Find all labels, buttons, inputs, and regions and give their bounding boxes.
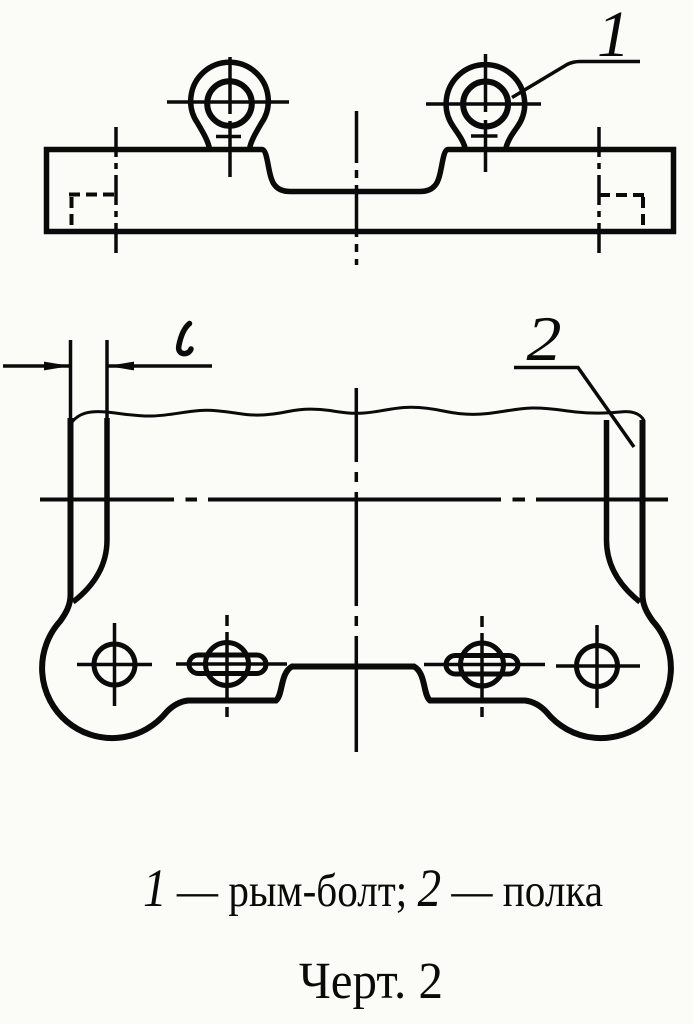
dimension line l xyxy=(3,364,212,368)
eye bolt right horizontal centerline xyxy=(426,102,541,106)
hole left horizontal centerline xyxy=(77,663,152,667)
eye bolt left vertical centerline xyxy=(228,57,232,177)
hole left plain xyxy=(94,644,135,685)
bottom view vertical centerline xyxy=(355,388,359,752)
hole right horizontal centerline xyxy=(556,664,640,668)
svg-text:1: 1 xyxy=(597,0,630,71)
slot right circle xyxy=(461,643,504,686)
slot right vertical centerline xyxy=(480,616,484,717)
eye bolt left neck tick xyxy=(216,135,241,139)
slot right horizontal centerline xyxy=(424,663,545,667)
slot left horizontal centerline xyxy=(176,662,287,666)
eye bolt 1 right inner hole xyxy=(463,82,508,127)
left plate outer line and left lobe xyxy=(42,418,671,738)
slot left stadium xyxy=(189,655,266,674)
left corner dash-dot centerline xyxy=(114,127,118,253)
hidden dashed corner right xyxy=(599,193,645,197)
bar outline with middle recess xyxy=(47,150,674,232)
svg-text:Черт. 2: Черт. 2 xyxy=(299,953,443,1010)
leader line to label 1 xyxy=(512,62,640,98)
slot left circle xyxy=(206,643,249,686)
hole right vertical centerline xyxy=(595,625,599,708)
hidden dashed corner left xyxy=(69,193,116,197)
dimension arrow left xyxy=(44,362,71,371)
eye bolt 1 left outer ring and neck xyxy=(191,62,269,149)
script letter l xyxy=(179,324,191,354)
hole left vertical centerline xyxy=(113,623,117,706)
extension lines for dimension l xyxy=(71,340,108,421)
slot right stadium xyxy=(446,656,518,675)
svg-text:1 — рым-болт; 2 — полка: 1 — рым-болт; 2 — полка xyxy=(143,858,603,918)
slot left vertical centerline xyxy=(225,615,229,717)
eye bolt 1 left inner hole xyxy=(207,81,252,126)
left plate inner line xyxy=(73,418,107,602)
leader line to label 2 xyxy=(514,368,634,448)
bottom view horizontal dash-dot centerline xyxy=(40,498,668,502)
right corner dash-dot centerline xyxy=(597,127,601,253)
dimension arrow right xyxy=(108,362,135,371)
svg-text:2: 2 xyxy=(527,303,562,374)
top view middle vertical centerline xyxy=(355,111,359,265)
wavy break line xyxy=(72,407,644,422)
right plate inner line xyxy=(607,420,641,602)
eye bolt left horizontal centerline xyxy=(167,100,289,104)
eye bolt 1 right outer ring and neck xyxy=(446,65,525,150)
hole right plain xyxy=(577,646,618,687)
eye bolt right vertical centerline xyxy=(484,54,488,172)
eye bolt right neck tick xyxy=(471,134,498,138)
